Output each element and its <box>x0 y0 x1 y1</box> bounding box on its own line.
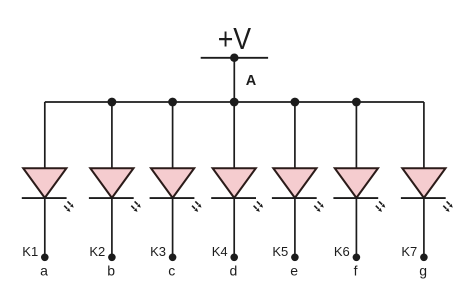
LED D3 (segment c) <box>150 168 202 212</box>
svg-text:K1: K1 <box>22 244 38 259</box>
svg-text:K7: K7 <box>401 244 417 259</box>
junction dot: node A bus / LED D4 branch <box>230 98 239 107</box>
LED D6 (segment f) <box>333 168 385 212</box>
terminal dot K2 <box>108 253 116 261</box>
wire: +V supply bar <box>201 57 268 59</box>
svg-text:c: c <box>168 262 175 278</box>
wire: cathode of LED D7 to terminal K7 <box>423 198 425 257</box>
svg-text:K3: K3 <box>150 244 166 259</box>
label segment a <box>40 262 48 278</box>
svg-text:A: A <box>246 73 257 89</box>
label K7 <box>401 244 417 259</box>
svg-text:e: e <box>290 262 298 278</box>
label segment b <box>107 262 115 278</box>
wire: bus to anode of LED D2 <box>111 102 113 168</box>
junction dot: node A bus / LED D5 branch <box>291 98 300 107</box>
svg-text:a: a <box>40 262 48 278</box>
label segment g <box>419 262 427 278</box>
label segment c <box>168 262 175 278</box>
label K6 <box>334 244 350 259</box>
svg-text:d: d <box>230 262 238 278</box>
svg-text:K2: K2 <box>89 244 105 259</box>
LED D2 (segment b) <box>89 168 141 212</box>
svg-text:+V: +V <box>218 21 252 56</box>
svg-text:g: g <box>419 262 427 278</box>
wire: cathode of LED D5 to terminal K5 <box>294 198 296 257</box>
junction dot on +V bar <box>230 54 239 63</box>
label K2 <box>89 244 105 259</box>
svg-text:K5: K5 <box>272 244 288 259</box>
label +V <box>218 21 252 56</box>
wire: cathode of LED D1 to terminal K1 <box>44 198 46 257</box>
wire: cathode of LED D3 to terminal K3 <box>172 198 174 257</box>
label K3 <box>150 244 166 259</box>
terminal dot K1 <box>41 253 49 261</box>
terminal dot K7 <box>420 253 428 261</box>
junction dot: node A bus / LED D6 branch <box>352 98 361 107</box>
wire: bus to anode of LED D5 <box>294 102 296 168</box>
LED D1 (segment a) <box>22 168 74 212</box>
wire: bus to anode of LED D4 <box>233 102 235 168</box>
LED D5 (segment e) <box>272 168 324 212</box>
wire: bus to anode of LED D7 <box>423 102 425 168</box>
label segment d <box>230 262 238 278</box>
svg-text:K4: K4 <box>212 244 228 259</box>
svg-text:b: b <box>107 262 115 278</box>
node A label <box>246 73 257 89</box>
wire: common anode bus <box>45 101 424 103</box>
terminal dot K3 <box>169 253 177 261</box>
wire: +V to node A on anode bus <box>233 58 235 102</box>
junction dot: node A bus / LED D3 branch <box>168 98 177 107</box>
LED D4 (segment d) <box>211 168 263 212</box>
terminal dot K4 <box>230 253 238 261</box>
junction dot: node A bus / LED D2 branch <box>108 98 117 107</box>
wire: cathode of LED D4 to terminal K4 <box>233 198 235 257</box>
terminal dot K5 <box>291 253 299 261</box>
wire: cathode of LED D6 to terminal K6 <box>355 198 357 257</box>
label segment f <box>354 262 358 278</box>
label segment e <box>290 262 298 278</box>
wire: cathode of LED D2 to terminal K2 <box>111 198 113 257</box>
wire: bus to anode of LED D1 <box>44 102 46 168</box>
wire: bus to anode of LED D3 <box>172 102 174 168</box>
label K5 <box>272 244 288 259</box>
svg-text:f: f <box>354 262 358 278</box>
wire: bus to anode of LED D6 <box>355 102 357 168</box>
label K4 <box>212 244 228 259</box>
svg-text:K6: K6 <box>334 244 350 259</box>
terminal dot K6 <box>353 253 361 261</box>
LED D7 (segment g) <box>401 168 453 212</box>
label K1 <box>22 244 38 259</box>
